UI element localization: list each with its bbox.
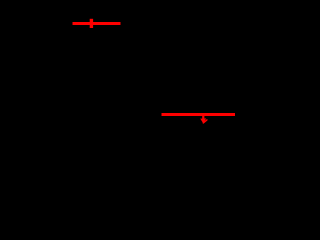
node I (current direction arrow, pointing down) bbox=[200, 115, 207, 123]
wire (top highlighted segment, positive side) bbox=[73, 22, 121, 25]
wire (bottom highlighted segment) bbox=[162, 113, 236, 116]
node + (plus polarity marker on top wire) bbox=[90, 19, 93, 28]
